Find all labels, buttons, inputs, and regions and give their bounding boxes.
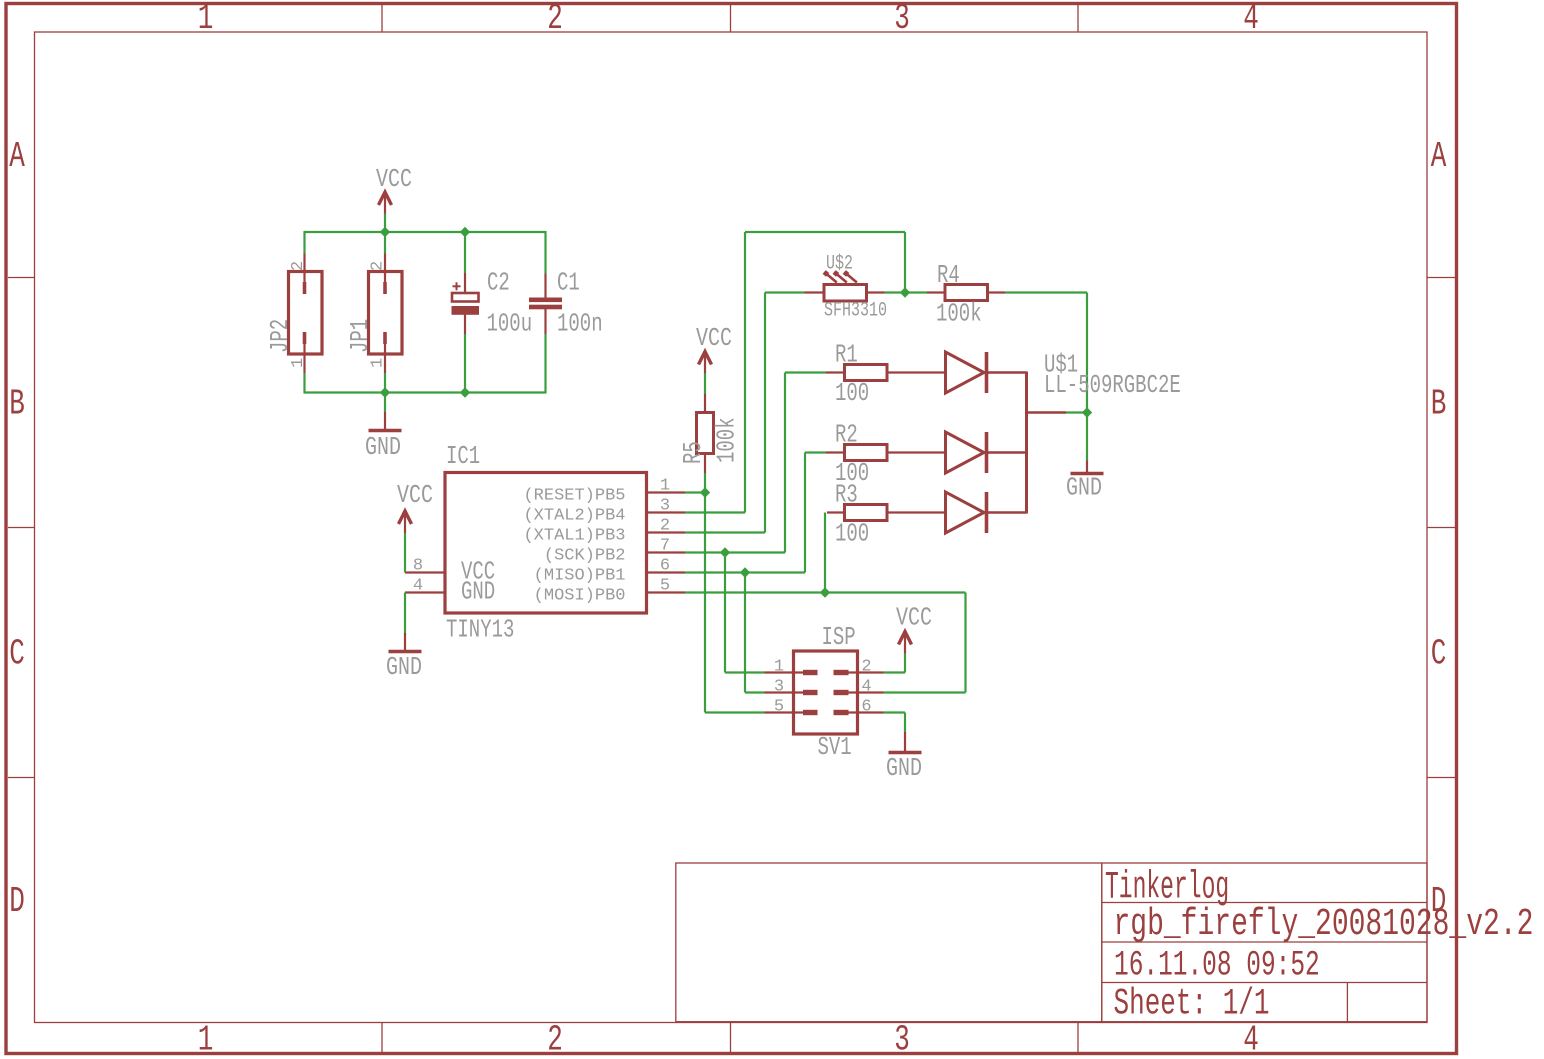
svg-text:B: B bbox=[9, 385, 25, 425]
ground symbol (IC1) bbox=[389, 633, 422, 652]
svg-text:6: 6 bbox=[861, 698, 871, 717]
capacitor C1 bbox=[529, 274, 562, 335]
wire pin 4 to GND bbox=[404, 593, 406, 635]
svg-text:R2: R2 bbox=[835, 420, 858, 450]
frame column numbers 1-4 bbox=[198, 0, 1259, 1059]
LED U$1 blue element bbox=[946, 492, 987, 533]
junction U$2/R4 node bbox=[900, 287, 910, 297]
svg-text:(SCK)PB2: (SCK)PB2 bbox=[544, 547, 626, 566]
wire LED2 cathode to common bar bbox=[987, 451, 1027, 454]
label GND (power rail) bbox=[365, 433, 401, 462]
svg-text:JP1: JP1 bbox=[345, 319, 375, 353]
junction pin6 branch bbox=[740, 567, 750, 577]
svg-text:VCC: VCC bbox=[376, 165, 412, 194]
value 100n bbox=[557, 309, 603, 339]
label ISP bbox=[822, 622, 856, 652]
svg-text:R5: R5 bbox=[678, 441, 708, 464]
svg-text:4: 4 bbox=[1243, 0, 1259, 39]
svg-text:TINY13: TINY13 bbox=[446, 615, 514, 645]
LED U$1 green element bbox=[946, 432, 987, 473]
svg-text:2: 2 bbox=[660, 517, 670, 536]
svg-text:GND: GND bbox=[365, 433, 401, 462]
resistor R4 bbox=[927, 285, 1005, 301]
junction pin1/R5 bbox=[700, 487, 710, 497]
supply symbol VCC (R5) bbox=[699, 352, 712, 374]
svg-text:3: 3 bbox=[774, 678, 784, 697]
svg-text:100: 100 bbox=[835, 378, 869, 408]
svg-text:100k: 100k bbox=[936, 299, 982, 329]
junction bottom rail / C2 bbox=[460, 387, 470, 397]
svg-text:R1: R1 bbox=[835, 340, 858, 370]
svg-text:GND: GND bbox=[886, 754, 922, 783]
svg-text:5: 5 bbox=[774, 698, 784, 717]
wire ISP pin6 to GND bbox=[884, 713, 906, 733]
capacitor C2 (polarized) bbox=[452, 273, 480, 334]
svg-text:SFH3310: SFH3310 bbox=[824, 300, 887, 323]
svg-text:100: 100 bbox=[835, 519, 869, 549]
IC1 left pin numbers bbox=[413, 557, 423, 596]
svg-text:A: A bbox=[9, 137, 25, 177]
junction LED common / R4 / GND bbox=[1082, 407, 1092, 417]
svg-text:1: 1 bbox=[774, 658, 784, 677]
wire C1 bottom drop bbox=[544, 334, 546, 394]
title block empty field box bbox=[676, 863, 1102, 1022]
wire C2 bottom drop bbox=[464, 334, 466, 393]
value SFH3310 bbox=[824, 300, 887, 323]
wire JP1 bottom rise bbox=[384, 373, 386, 393]
value LL-509RGBC2E bbox=[1044, 370, 1181, 400]
label U$2 bbox=[826, 253, 853, 276]
label R1 bbox=[835, 340, 858, 370]
title text Tinkerlog bbox=[1105, 865, 1229, 910]
svg-text:5: 5 bbox=[660, 577, 670, 596]
label C2 bbox=[487, 268, 510, 298]
wire R5 to pin1 node bbox=[704, 473, 706, 493]
wire node to R4 bbox=[905, 291, 927, 293]
wire rail to GND symbol bbox=[384, 393, 386, 413]
wire GND bottom rail bbox=[305, 391, 546, 393]
svg-text:2: 2 bbox=[547, 1021, 563, 1059]
wire JP2 bottom rise bbox=[303, 373, 305, 394]
supply symbol VCC (IC1) bbox=[399, 511, 412, 533]
svg-text:2: 2 bbox=[369, 261, 388, 271]
svg-text:LL-509RGBC2E: LL-509RGBC2E bbox=[1044, 370, 1181, 400]
svg-text:VCC: VCC bbox=[696, 324, 732, 353]
svg-text:3: 3 bbox=[660, 497, 670, 516]
net RESET: pin1 to R5 and ISP pin5 bbox=[685, 493, 765, 713]
svg-text:1: 1 bbox=[289, 358, 308, 368]
net PB4: pin3 up and over to U$2/R4 node bbox=[685, 232, 905, 513]
svg-text:100n: 100n bbox=[557, 309, 603, 339]
SV1 right pin numbers 2,4,6 bbox=[861, 658, 871, 717]
net MOSI: pin5 to R3 and ISP pin4 bbox=[685, 513, 966, 693]
wire JP2 top drop bbox=[303, 231, 305, 254]
svg-text:(XTAL2)PB4: (XTAL2)PB4 bbox=[523, 507, 625, 526]
IC1 left pin stubs (8,4) bbox=[405, 573, 445, 593]
label VCC (top left) bbox=[376, 165, 412, 194]
svg-text:6: 6 bbox=[660, 557, 670, 576]
svg-text:2: 2 bbox=[861, 658, 871, 677]
ground symbol (power rail) bbox=[369, 412, 402, 431]
wire tap to node bbox=[1066, 411, 1087, 413]
value 100 (R2) bbox=[835, 458, 869, 488]
svg-text:R4: R4 bbox=[937, 260, 960, 290]
label JP1 bbox=[345, 319, 375, 353]
IC1 right pin numbers bbox=[660, 477, 670, 596]
svg-text:R3: R3 bbox=[835, 480, 858, 510]
connector SV1 body bbox=[794, 651, 858, 734]
resistor R3 bbox=[827, 505, 946, 521]
svg-text:D: D bbox=[9, 882, 25, 922]
label C1 bbox=[557, 268, 580, 298]
svg-text:C2: C2 bbox=[487, 268, 510, 298]
junction top rail / C2 bbox=[460, 227, 470, 237]
svg-text:GND: GND bbox=[461, 577, 495, 607]
svg-text:2: 2 bbox=[289, 261, 308, 271]
svg-text:Sheet: 1/1: Sheet: 1/1 bbox=[1114, 982, 1270, 1025]
label TINY13 bbox=[446, 615, 514, 645]
svg-text:1: 1 bbox=[369, 358, 388, 368]
LED U$1 red element bbox=[946, 352, 987, 393]
svg-text:7: 7 bbox=[660, 537, 670, 556]
label R3 bbox=[835, 480, 858, 510]
svg-text:IC1: IC1 bbox=[446, 441, 480, 471]
svg-text:A: A bbox=[1431, 137, 1447, 177]
svg-text:rgb_firefly_20081028_v2.2: rgb_firefly_20081028_v2.2 bbox=[1114, 903, 1534, 946]
svg-text:(RESET)PB5: (RESET)PB5 bbox=[523, 487, 625, 506]
ground symbol (ISP) bbox=[889, 732, 922, 753]
svg-text:GND: GND bbox=[386, 653, 422, 682]
label U$1 bbox=[1044, 350, 1078, 380]
wire LED1 cathode to common bar bbox=[987, 371, 1027, 374]
value 100 (R3) bbox=[835, 519, 869, 549]
svg-text:C: C bbox=[1431, 635, 1447, 675]
wire C1 top drop bbox=[544, 231, 546, 274]
label SV1 bbox=[818, 732, 852, 762]
phototransistor U$2 bbox=[805, 272, 885, 301]
label JP2 bbox=[265, 319, 295, 353]
label VCC (IC1) bbox=[397, 481, 433, 510]
svg-text:C: C bbox=[9, 635, 25, 675]
title text Sheet: 1/1 bbox=[1114, 982, 1270, 1025]
svg-text:3: 3 bbox=[894, 0, 910, 39]
svg-text:16.11.08 09:52: 16.11.08 09:52 bbox=[1114, 947, 1320, 986]
svg-text:JP2: JP2 bbox=[265, 319, 295, 353]
svg-text:(XTAL1)PB3: (XTAL1)PB3 bbox=[523, 527, 625, 546]
svg-text:ISP: ISP bbox=[822, 622, 856, 652]
wire node to GND (U$1) bbox=[1086, 413, 1088, 462]
label R5 bbox=[678, 441, 708, 464]
IC1 right pin stubs bbox=[647, 493, 686, 593]
svg-text:8: 8 bbox=[413, 557, 423, 576]
title text rgb_firefly_20081028_v2.2 bbox=[1114, 903, 1534, 946]
svg-text:VCC: VCC bbox=[397, 481, 433, 510]
value 100k (R4) bbox=[936, 299, 982, 329]
wire VCC to pin 8 bbox=[404, 533, 406, 573]
label IC1 bbox=[446, 441, 480, 471]
wire ISP pin2 to VCC bbox=[884, 653, 906, 673]
title block grid bbox=[1102, 863, 1427, 1022]
svg-text:1: 1 bbox=[198, 1021, 214, 1059]
IC1 pin labels VCC GND bbox=[461, 557, 495, 607]
wire VCC top rail bbox=[305, 231, 546, 233]
resistor R1 bbox=[826, 365, 946, 381]
jumper JP1 bbox=[369, 254, 403, 374]
net MISO: pin6 to R2 and ISP pin3 bbox=[685, 453, 826, 693]
IC U1 body (TINY13) bbox=[445, 473, 647, 614]
label GND (IC1) bbox=[386, 653, 422, 682]
junction bottom rail / JP1 bbox=[380, 387, 390, 397]
label GND (U$1) bbox=[1066, 473, 1102, 502]
wire VCC to R5 bbox=[704, 373, 706, 394]
label VCC (R5) bbox=[696, 324, 732, 353]
svg-text:100u: 100u bbox=[487, 309, 533, 339]
junction top rail / JP1 bbox=[380, 227, 390, 237]
label GND (ISP) bbox=[886, 754, 922, 783]
net R4 to LED common node bbox=[1005, 293, 1087, 413]
ground symbol (U$1) bbox=[1071, 461, 1104, 474]
svg-text:(MISO)PB1: (MISO)PB1 bbox=[534, 567, 626, 586]
svg-text:(MOSI)PB0: (MOSI)PB0 bbox=[534, 587, 626, 606]
svg-text:2: 2 bbox=[547, 0, 563, 39]
resistor R5 (vertical) bbox=[697, 394, 714, 474]
svg-text:U$2: U$2 bbox=[826, 253, 853, 276]
value 100u bbox=[487, 309, 533, 339]
svg-text:4: 4 bbox=[1243, 1021, 1259, 1059]
SV1 pin stubs bbox=[765, 673, 884, 713]
svg-text:100k: 100k bbox=[712, 417, 742, 463]
junction pin5 branch bbox=[820, 587, 830, 597]
junction pin7 branch bbox=[720, 547, 730, 557]
JP2 pin 1 number bbox=[289, 358, 308, 368]
value 100k (R5) bbox=[712, 417, 742, 463]
wire U$2 to node bbox=[885, 291, 906, 293]
wire common bar tap bbox=[1027, 411, 1067, 414]
label R2 bbox=[835, 420, 858, 450]
wire JP1 top drop bbox=[384, 232, 386, 254]
U$1 common cathode bar bbox=[1025, 372, 1028, 514]
svg-text:4: 4 bbox=[861, 678, 871, 697]
wire LED3 cathode to common bar bbox=[987, 511, 1027, 514]
JP1 pin 2 number bbox=[369, 261, 388, 271]
title text date 16.11.08 09:52 bbox=[1114, 947, 1320, 986]
frame row letters A-D bbox=[9, 137, 1446, 922]
IC1 pin names PB5-PB0 bbox=[523, 487, 625, 606]
wire C2 top drop bbox=[464, 232, 466, 273]
supply symbol VCC (top left) bbox=[379, 192, 392, 214]
SV1 left pin numbers 1,3,5 bbox=[774, 658, 784, 717]
resistor R2 bbox=[826, 445, 946, 461]
supply symbol VCC (ISP) bbox=[899, 632, 912, 654]
svg-text:1: 1 bbox=[198, 0, 214, 39]
svg-text:B: B bbox=[1431, 385, 1447, 425]
jumper JP2 bbox=[289, 254, 323, 374]
label VCC (ISP) bbox=[896, 603, 932, 632]
svg-text:3: 3 bbox=[894, 1021, 910, 1059]
label R4 bbox=[937, 260, 960, 290]
wire VCC arrow to rail bbox=[384, 214, 386, 233]
svg-text:SV1: SV1 bbox=[818, 732, 852, 762]
svg-text:C1: C1 bbox=[557, 268, 580, 298]
net SCK: pin7 to R1 and ISP pin1 bbox=[685, 373, 826, 673]
svg-text:4: 4 bbox=[413, 577, 423, 596]
JP2 pin 2 number bbox=[289, 261, 308, 271]
svg-text:VCC: VCC bbox=[896, 603, 932, 632]
value 100 (R1) bbox=[835, 378, 869, 408]
JP1 pin 1 number bbox=[369, 358, 388, 368]
svg-text:1: 1 bbox=[660, 477, 670, 496]
svg-text:GND: GND bbox=[1066, 473, 1102, 502]
net PB3: pin2 to U$2 left bbox=[685, 293, 805, 533]
